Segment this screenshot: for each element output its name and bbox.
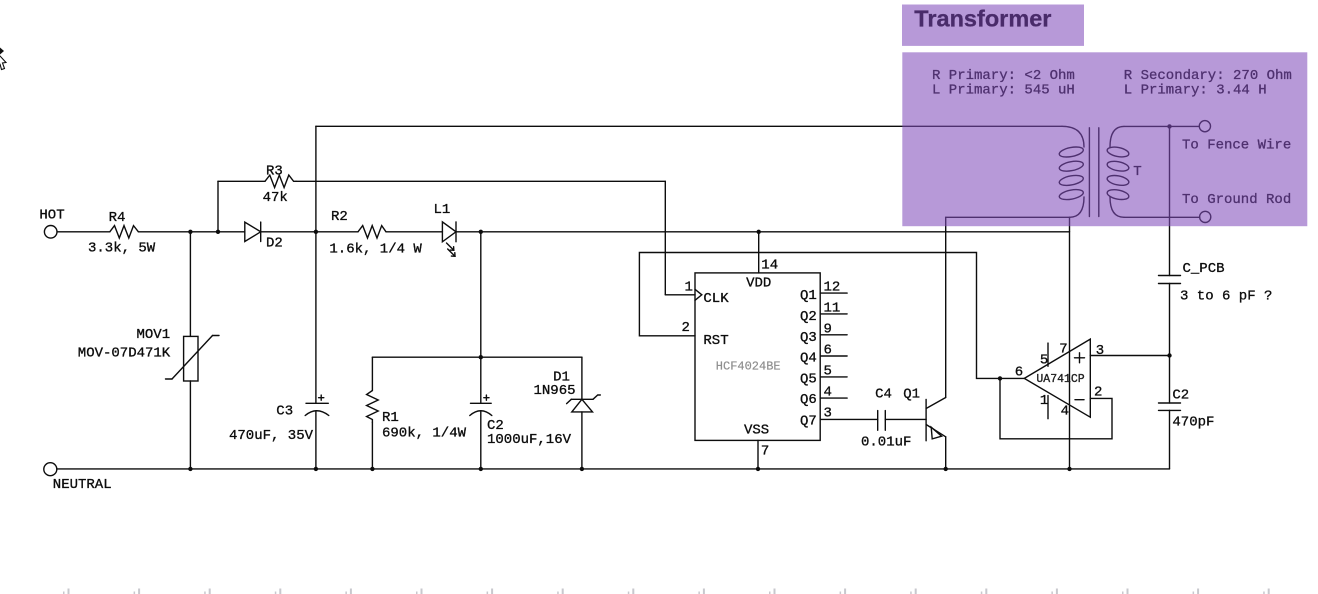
label Q1 out [800, 288, 817, 304]
varistor MOV1 [166, 336, 220, 382]
pin label 3 [824, 406, 832, 422]
svg-text:L1: L1 [434, 202, 451, 218]
capacitor C2 1000uF [470, 232, 492, 469]
diode D2 [245, 222, 261, 241]
wire RST to op-amp input [639, 253, 1024, 381]
capacitor C3 [305, 232, 329, 469]
pin label 4 [824, 384, 832, 400]
svg-text:3: 3 [824, 406, 832, 422]
pin label 6 [824, 343, 832, 359]
resistor R1 [367, 357, 379, 469]
terminal To Ground Rod [1200, 211, 1211, 222]
label D1 [553, 370, 570, 386]
note L Primary [932, 83, 1075, 99]
label VSS [744, 422, 769, 438]
node junction op-amp output [1167, 353, 1171, 357]
transformer T secondary winding [1106, 126, 1129, 217]
note L Secondary [1124, 83, 1267, 99]
svg-text:1: 1 [1040, 393, 1048, 409]
value D1 1N965 [534, 383, 576, 399]
wire hot rail [57, 231, 1069, 233]
svg-text:Q4: Q4 [800, 351, 817, 367]
clock wedge [695, 289, 702, 300]
value C_PCB 3 to 6 pF [1180, 288, 1272, 304]
pin label 2 [682, 320, 690, 336]
svg-text:HCF4024BE: HCF4024BE [716, 360, 781, 374]
label Q1 transistor [903, 386, 920, 402]
svg-text:Q1: Q1 [903, 386, 920, 402]
transformer title highlight box [902, 5, 1084, 46]
label C3 [276, 403, 293, 419]
resistor R4 [110, 226, 139, 238]
wire MOV branch [189, 232, 191, 469]
svg-text:D2: D2 [266, 236, 283, 252]
wire neutral rail [57, 468, 1170, 470]
label Q4 out [800, 351, 817, 367]
zener diode D1 [567, 357, 601, 469]
node junction MOV [188, 230, 192, 234]
pin 14 VDD stub [757, 230, 761, 273]
svg-text:7: 7 [1059, 342, 1067, 358]
wire collector to transformer primary bottom [946, 217, 1070, 397]
value C3 470uF 35V [229, 428, 314, 444]
pin 9 Q3 stub [820, 334, 847, 336]
svg-text:2: 2 [1094, 385, 1102, 401]
svg-text:MOV1: MOV1 [137, 327, 171, 343]
value 470pF [1172, 415, 1214, 431]
label HOT [39, 208, 64, 224]
pin 11 Q2 stub [820, 313, 847, 315]
pin label 11 [824, 300, 841, 316]
value R2 1.6k 1/4W [329, 241, 422, 257]
pin 5 Q5 stub [820, 376, 847, 378]
label NEUTRAL [53, 477, 112, 493]
pin label 12 [824, 279, 841, 295]
label CLK [703, 291, 729, 307]
svg-text:3.3k, 5W: 3.3k, 5W [88, 240, 156, 256]
svg-text:5: 5 [1040, 352, 1048, 368]
node junction C2 top [479, 355, 483, 359]
pin label 5 [824, 364, 832, 380]
label VDD [746, 275, 771, 291]
svg-text:R1: R1 [382, 410, 399, 426]
svg-text:470pF: 470pF [1172, 415, 1214, 431]
opamp pin label 1 [1040, 393, 1048, 409]
capacitor C2 470pF [1159, 403, 1181, 469]
wire op-amp pin 3 output [1090, 355, 1169, 357]
opamp pin label 5 [1040, 352, 1048, 368]
svg-text:7: 7 [761, 444, 769, 460]
transformer T primary winding [1058, 126, 1084, 217]
opamp pin label 2 [1094, 385, 1102, 401]
label R4 [109, 210, 126, 226]
value C4 0.01uF [861, 435, 911, 451]
svg-text:HOT: HOT [39, 208, 64, 224]
svg-text:3 to 6 pF ?: 3 to 6 pF ? [1180, 288, 1272, 304]
svg-text:2: 2 [682, 320, 690, 336]
svg-text:C2: C2 [1172, 387, 1189, 403]
label To Ground Rod [1182, 192, 1291, 208]
svg-text:Q2: Q2 [800, 309, 817, 325]
label C2 electrolytic [487, 418, 504, 434]
pin label 9 [824, 322, 832, 338]
node junction R3 left [216, 230, 220, 234]
pin 4 Q6 stub [820, 397, 847, 399]
part name UA741CP [1036, 373, 1084, 386]
opamp pin label 3 [1096, 343, 1104, 359]
svg-text:5: 5 [824, 364, 832, 380]
label RST [703, 333, 728, 349]
label Q2 out [800, 309, 817, 325]
value MOV-07D471K [78, 346, 171, 362]
node junction L1 right [479, 230, 483, 234]
svg-text:MOV-07D471K: MOV-07D471K [78, 346, 171, 362]
label T [1133, 164, 1141, 180]
svg-text:690k, 1/4W: 690k, 1/4W [382, 426, 467, 442]
svg-text:Q3: Q3 [800, 330, 817, 346]
svg-text:3: 3 [1096, 343, 1104, 359]
wire secondary bottom to ground terminal [1124, 216, 1200, 218]
svg-text:6: 6 [1015, 365, 1023, 381]
label C2 470pF [1172, 387, 1189, 403]
transformer info highlight box [902, 52, 1307, 226]
terminal To Fence Wire [1199, 121, 1210, 132]
svg-text:VDD: VDD [746, 275, 771, 291]
cursor [0, 48, 6, 70]
opamp pin label 4 [1061, 404, 1069, 420]
label Q3 out [800, 330, 817, 346]
pin 12 Q1 stub [820, 292, 847, 294]
svg-text:C3: C3 [276, 403, 293, 419]
svg-text:C_PCB: C_PCB [1183, 261, 1225, 277]
svg-text:1000uF,16V: 1000uF,16V [487, 432, 572, 448]
svg-text:R4: R4 [109, 210, 126, 226]
wire op-amp pin 2 feedback [1000, 378, 1112, 438]
transformer core [1089, 128, 1098, 217]
label Q6 out [800, 392, 817, 408]
svg-text:R2: R2 [331, 209, 348, 225]
svg-text:VSS: VSS [744, 422, 769, 438]
svg-text:4: 4 [824, 384, 832, 400]
pin 6 Q4 stub [820, 355, 847, 357]
value R4 3.3k 5W [88, 240, 156, 256]
label L1 [434, 202, 451, 218]
pin label 1 [685, 279, 693, 295]
pin label 14 [761, 258, 778, 274]
svg-text:RST: RST [703, 333, 728, 349]
capacitor C_PCB [1159, 276, 1181, 404]
svg-text:C4: C4 [875, 387, 892, 403]
opamp pin label 7 [1059, 342, 1067, 358]
pin 7 VSS stub [756, 440, 760, 471]
label Q5 out [800, 371, 817, 387]
svg-text:R3: R3 [266, 164, 283, 180]
label R3 [266, 164, 283, 180]
note R Secondary [1124, 68, 1292, 84]
svg-text:14: 14 [761, 258, 778, 274]
svg-text:Q7: Q7 [800, 413, 817, 429]
node junctions neutral rail [188, 467, 584, 471]
pin label 7 [761, 444, 769, 460]
terminal HOT [44, 226, 57, 239]
resistor R2 [358, 226, 386, 238]
wire R1/C2/D1 top link [372, 356, 582, 358]
label R1 [382, 410, 399, 426]
wire secondary top to fence terminal [1124, 124, 1199, 128]
label C4 [875, 387, 892, 403]
op-amp U2 UA741CP [1024, 339, 1090, 419]
wire primary bottom to neutral [1067, 217, 1071, 471]
svg-text:CLK: CLK [703, 291, 729, 307]
value R1 690k 1/4W [382, 426, 467, 442]
note R Primary [932, 68, 1075, 84]
terminal NEUTRAL [44, 463, 57, 476]
part name HCF4024BE [716, 360, 781, 374]
svg-text:Q6: Q6 [800, 392, 817, 408]
svg-text:Q5: Q5 [800, 371, 817, 387]
svg-text:9: 9 [824, 322, 832, 338]
wire R3 branch [218, 181, 695, 294]
svg-text:47k: 47k [263, 190, 288, 206]
wire fence node down to C_PCB [1169, 126, 1171, 275]
title Transformer [914, 5, 1051, 31]
pin 3 Q7 wire [820, 418, 878, 420]
IC U1 HCF4024BE box [695, 273, 820, 441]
label Q7 out [800, 413, 817, 429]
svg-text:470uF, 35V: 470uF, 35V [229, 428, 314, 444]
svg-text:NEUTRAL: NEUTRAL [53, 477, 112, 493]
transistor Q1 [926, 398, 948, 472]
svg-text:6: 6 [824, 343, 832, 359]
svg-text:1: 1 [685, 279, 693, 295]
svg-text:UA741CP: UA741CP [1036, 373, 1084, 386]
wire top link to transformer [314, 126, 1062, 234]
value R3 47k [263, 190, 288, 206]
label MOV1 [137, 327, 171, 343]
svg-text:12: 12 [824, 279, 841, 295]
svg-text:0.01uF: 0.01uF [861, 435, 911, 451]
opamp pin label 6 [1015, 365, 1023, 381]
svg-text:Q1: Q1 [800, 288, 817, 304]
capacitor C4 [878, 411, 926, 431]
label D2 [266, 236, 283, 252]
label To Fence Wire [1182, 137, 1291, 153]
label C_PCB [1183, 261, 1225, 277]
value C2 1000uF 16V [487, 432, 572, 448]
LED L1 [442, 222, 456, 256]
svg-text:11: 11 [824, 300, 841, 316]
svg-text:1.6k, 1/4 W: 1.6k, 1/4 W [329, 241, 422, 257]
label R2 [331, 209, 348, 225]
svg-text:1N965: 1N965 [534, 383, 576, 399]
svg-text:4: 4 [1061, 404, 1069, 420]
resistor R3 [265, 175, 296, 187]
